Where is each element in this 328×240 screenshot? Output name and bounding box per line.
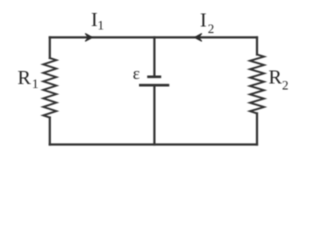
svg-text:2: 2 (208, 21, 215, 36)
current arrow I1 (pointing right) (85, 34, 92, 42)
label R2 (269, 66, 289, 92)
svg-text:2: 2 (282, 78, 289, 93)
battery cell short plate (negative) (147, 76, 161, 79)
label I2 (200, 9, 214, 36)
battery cell long plate (positive) (139, 84, 169, 87)
wire left upper (49, 37, 51, 58)
wire right lower (256, 113, 258, 144)
svg-text:R: R (18, 67, 32, 89)
wire left lower (49, 118, 51, 145)
wire top (50, 36, 257, 38)
label I1 (91, 9, 104, 32)
svg-text:1: 1 (32, 76, 39, 91)
resistor R1 (43, 58, 56, 118)
wire right upper (256, 37, 258, 54)
wire bottom (50, 143, 257, 145)
resistor R2 (250, 55, 264, 114)
wire battery top lead (153, 37, 155, 76)
svg-text:I: I (200, 9, 207, 31)
svg-text:R: R (269, 66, 283, 88)
wire battery bottom lead (153, 85, 155, 144)
svg-text:1: 1 (98, 18, 105, 33)
current arrow I2 (pointing left) (194, 34, 201, 42)
svg-text:ε: ε (133, 64, 140, 83)
label R1 (18, 67, 39, 91)
